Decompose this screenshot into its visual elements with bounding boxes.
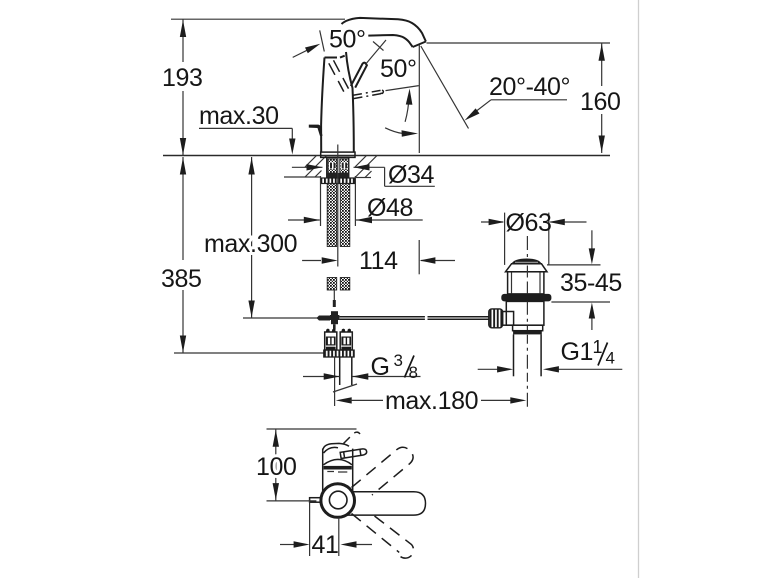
pop-up cap (511, 259, 541, 265)
dimension 160 (580, 43, 621, 153)
solid lever capsule (345, 492, 426, 515)
svg-text:Ø63: Ø63 (506, 209, 552, 237)
extension line below supply (334, 357, 336, 406)
deck hatching left (305, 156, 327, 178)
label max.30 with leader (199, 102, 296, 155)
locking nut (321, 178, 355, 184)
top face curves (323, 443, 349, 450)
supply pipe (339, 357, 341, 385)
svg-text:50°: 50° (329, 26, 366, 54)
svg-text:100: 100 (256, 453, 297, 481)
dimension Ø48 (288, 194, 423, 223)
rod junction (317, 311, 340, 324)
dimension 114 (302, 240, 455, 275)
collar (513, 325, 543, 331)
dimension 41 (280, 531, 372, 559)
page divider faint line (638, 0, 640, 578)
big circle (321, 484, 355, 518)
knurled knob (489, 309, 503, 328)
arc arrow up (50#2) (405, 94, 409, 122)
svg-text:114: 114 (359, 247, 398, 275)
svg-text:Ø34: Ø34 (388, 161, 435, 189)
top extension line (spout top level) (171, 18, 345, 20)
label 20-40 with leader (465, 73, 571, 121)
deck hatching right (355, 156, 377, 178)
slanted extension line for dashed handle (320, 30, 325, 51)
pipe break mark (333, 384, 357, 392)
dashed lever down-right (352, 514, 414, 559)
svg-text:G1: G1 (561, 338, 594, 366)
deck bottom line right segment (355, 177, 371, 179)
spout inner outline + 50deg leader (368, 35, 412, 47)
svg-text:max.300: max.300 (204, 230, 297, 258)
dimension 100 (256, 429, 297, 501)
dimension 35-45 (560, 230, 622, 330)
svg-text:1: 1 (593, 337, 603, 357)
shank below deck (327, 158, 349, 178)
dimension max.300 (204, 157, 330, 318)
dark band (324, 466, 352, 470)
dimension 193 (162, 19, 203, 155)
100 top extension line (267, 428, 357, 430)
svg-text:35-45: 35-45 (560, 269, 622, 297)
spout tube curve (324, 459, 353, 464)
svg-text:4: 4 (606, 349, 615, 368)
dimension G1 1/4 (478, 337, 623, 373)
supply base band (324, 350, 354, 357)
deck bottom line left segment (284, 176, 321, 178)
base plate (321, 152, 355, 157)
Ø63 dimension (481, 209, 587, 237)
faucet centerline (337, 145, 339, 267)
dashed swivel spout position (top) (344, 432, 361, 443)
side lever (309, 125, 323, 136)
drain body (506, 301, 544, 325)
knob stem (503, 312, 514, 326)
100 bottom extension line (267, 500, 317, 502)
hose lower segments (327, 278, 337, 291)
water stream diagonal line (421, 46, 469, 129)
pop-up rod pin upper (333, 300, 336, 307)
dimension Ø34 (292, 161, 435, 189)
tailpipe (513, 334, 515, 376)
arc arrow right (50#2) (385, 128, 402, 134)
dash-dot handle position (right) (353, 90, 383, 99)
cap flange (506, 264, 548, 272)
spout outlet face (413, 42, 426, 48)
dimension 385 (161, 157, 354, 353)
dark band (513, 330, 542, 334)
solid handle stick (351, 63, 367, 88)
Ø63 extension lines (504, 213, 506, 265)
svg-text:20°-40°: 20°-40° (489, 73, 570, 101)
svg-text:Ø48: Ø48 (367, 194, 413, 222)
pin below junction (333, 324, 336, 330)
seal ring (dark) (501, 294, 551, 302)
svg-text:max.30: max.30 (199, 102, 279, 130)
drain centerline lower segments (526, 266, 528, 294)
spout outlet vertical extension line (418, 45, 420, 153)
handle lever small (top) (340, 448, 367, 458)
svg-text:50°: 50° (380, 55, 417, 83)
dashed handle position (up-left) (329, 60, 349, 91)
pop-up rod to drain (339, 316, 425, 318)
check valve fittings (325, 329, 353, 350)
svg-text:G: G (371, 353, 390, 381)
braided hoses (327, 184, 337, 247)
svg-text:max.180: max.180 (385, 387, 478, 415)
dimension G3/8 (303, 351, 421, 382)
top view faucet body (323, 443, 367, 491)
svg-text:3: 3 (394, 351, 403, 370)
handle extension line + X tick (366, 40, 386, 64)
svg-text:193: 193 (162, 64, 203, 92)
35-45 reference lines (547, 264, 601, 266)
svg-text:41: 41 (312, 531, 339, 559)
50deg #1 leader arrow (293, 46, 316, 58)
inner circle (329, 491, 347, 509)
extension to outlet line (386, 86, 419, 91)
41 extension lines (309, 500, 311, 556)
svg-text:385: 385 (161, 265, 202, 293)
svg-text:160: 160 (580, 88, 621, 116)
spout outer outline (342, 18, 426, 42)
drain upper cylinder (508, 272, 544, 294)
dimension max.180 (336, 387, 527, 415)
drain centerline (526, 236, 528, 257)
mounting deck line (163, 155, 610, 157)
extension lines at plate edges (320, 176, 322, 226)
left pin (310, 498, 321, 503)
faucet body outline (321, 58, 324, 153)
outlet level reference line (427, 42, 611, 44)
svg-text:8: 8 (409, 363, 418, 382)
body sides (323, 449, 353, 492)
dashed lever up-right (352, 447, 414, 495)
